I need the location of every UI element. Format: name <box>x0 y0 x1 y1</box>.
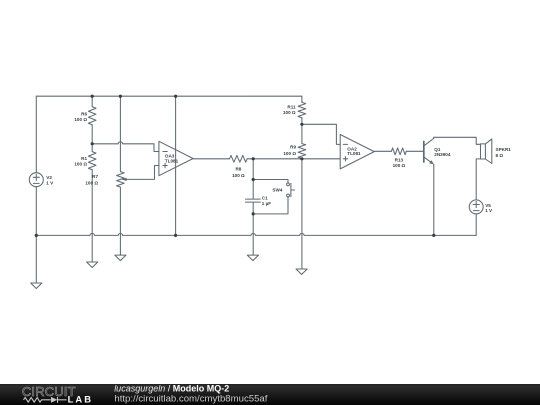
speaker SPKR1 <box>481 139 492 164</box>
wire R7 bottom to ground <box>119 187 121 255</box>
logo resistor squiggle <box>24 398 51 403</box>
wire R1 bottom to ground <box>91 170 93 262</box>
junction node V2 on rail <box>35 234 38 237</box>
op-amp OA3 <box>159 141 193 175</box>
junction node C1 bottom <box>252 212 255 215</box>
wire R9 bottom to ground <box>301 158 303 269</box>
ground for V2 <box>31 283 42 289</box>
wire bottom rail with crossover hops <box>36 233 476 235</box>
potentiometer R7 <box>117 172 127 188</box>
wire V5 bottom to rail <box>475 214 477 236</box>
junction node R8 output <box>252 157 255 160</box>
wire Q1 collector to speaker <box>434 137 481 144</box>
ground for R9 <box>296 269 307 275</box>
wire R11 top lead <box>301 96 303 102</box>
wire OA3 output to OA2 + input <box>193 158 340 160</box>
wire OA2 output to R13 <box>374 150 391 152</box>
junction node R7 top <box>119 95 122 98</box>
voltage source V5 <box>469 200 483 214</box>
wire R7 top lead from rail <box>119 96 121 171</box>
capacitor C1 <box>246 199 261 202</box>
wire R6 top lead <box>91 96 93 107</box>
op-amp OA2 <box>340 135 374 169</box>
wire R7 wiper to OA3 non-inverting input <box>126 166 159 180</box>
wire SW4 bottom return <box>253 197 288 214</box>
wire R6-R1 node segment <box>91 125 93 152</box>
resistor R6 <box>88 107 96 125</box>
resistor R13 <box>391 148 406 155</box>
wire V2 bottom to ground <box>35 187 37 284</box>
wire C1 top lead <box>252 159 254 199</box>
wire node to SW4 top <box>253 180 288 184</box>
junction node R6 top <box>91 95 94 98</box>
ground for R1 <box>87 262 98 268</box>
svg-text:lucasgurgeln / Modelo MQ-2: lucasgurgeln / Modelo MQ-2 <box>114 383 229 393</box>
wire R13 to Q1 base <box>406 150 424 152</box>
wire R11 to R9 segment <box>301 118 303 144</box>
wire C1 bottom to ground <box>252 203 254 255</box>
junction node R11/R9 <box>300 123 303 126</box>
ground for R7 <box>115 255 126 261</box>
wire V2 top lead <box>35 96 37 173</box>
junction node R9 bottom <box>300 157 303 160</box>
transistor Q1 <box>424 137 434 164</box>
wire top supply rail <box>36 95 302 97</box>
wire Q1 emitter to bottom rail <box>433 164 435 235</box>
wire rail drop at x=175 <box>175 96 177 235</box>
pushbutton SW4 <box>287 183 295 197</box>
junction node rail drop bottom <box>174 234 177 237</box>
wire R11-R9 node to OA2 inverting input <box>302 124 340 144</box>
svg-text:LAB: LAB <box>68 393 94 404</box>
junction node emitter on rail <box>432 234 435 237</box>
logo diode <box>51 397 57 403</box>
voltage source V2 <box>29 173 43 187</box>
svg-text:http://circuitlab.com/cmytb8mu: http://circuitlab.com/cmytb8muc55af <box>114 393 267 404</box>
resistor R1 <box>88 152 96 170</box>
junction node R6/R1 <box>91 142 94 145</box>
junction node C1 top <box>252 178 255 181</box>
wire node B to OA3 inverting input (with hop) <box>92 142 159 152</box>
ground for C1/SW4 <box>247 255 258 261</box>
resistor R11 <box>298 102 306 117</box>
footer bar <box>0 384 540 405</box>
junction node rail drop top <box>174 95 177 98</box>
resistor R8 <box>230 155 248 162</box>
resistor R9 <box>298 144 306 159</box>
wire speaker bottom to V5 <box>476 159 480 200</box>
